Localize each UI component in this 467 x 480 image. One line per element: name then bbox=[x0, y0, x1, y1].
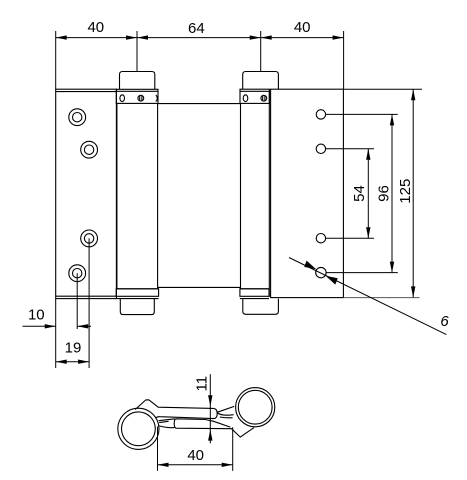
svg-text:125: 125 bbox=[397, 179, 414, 204]
upper tongue from right ring bbox=[217, 406, 234, 417]
svg-text:11: 11 bbox=[194, 376, 211, 392]
svg-text:19: 19 bbox=[65, 340, 82, 357]
10 arrows bbox=[45, 324, 56, 328]
lower bar of right leaf bbox=[174, 419, 254, 437]
right leaf hole 2 bbox=[316, 144, 325, 153]
hole 4 center extension bbox=[76, 273, 78, 329]
right leaf hole 4 bbox=[316, 267, 326, 277]
upper bar of left leaf bbox=[135, 400, 217, 419]
dimension graphics bbox=[23, 31, 447, 368]
arrows at 137 bbox=[126, 35, 137, 39]
right barrel tube bbox=[241, 103, 270, 288]
svg-text:10: 10 bbox=[28, 306, 45, 323]
6 leader arrows bbox=[304, 261, 316, 270]
54 arrows bbox=[366, 149, 370, 160]
right barrel bottom collar bbox=[240, 289, 269, 299]
left leaf hole 4 bbox=[69, 265, 86, 282]
svg-text:40: 40 bbox=[294, 19, 311, 36]
11 dimension line bbox=[209, 374, 211, 443]
left barrel tube bbox=[117, 103, 158, 288]
left leaf hole 3 bbox=[81, 230, 98, 247]
96 arrows bbox=[390, 114, 394, 125]
40 arrows bbox=[158, 463, 169, 467]
arrows at 260.7 bbox=[250, 35, 261, 39]
top dimension extension lines bbox=[55, 31, 57, 89]
10 dimension line bbox=[23, 325, 56, 327]
right side extension lines bbox=[343, 88, 422, 90]
svg-text:40: 40 bbox=[187, 447, 204, 464]
svg-text:40: 40 bbox=[87, 19, 104, 36]
40 extension lines bbox=[157, 427, 159, 471]
96 dimension line bbox=[391, 114, 393, 272]
svg-text:54: 54 bbox=[351, 185, 368, 202]
19 extension lines bbox=[55, 299, 57, 368]
left ring inner bbox=[121, 412, 155, 446]
svg-text:64: 64 bbox=[188, 20, 205, 37]
top dimension line bbox=[56, 37, 344, 39]
left ring outer bbox=[118, 408, 159, 449]
125 dimension line bbox=[412, 89, 414, 297]
11 arrows bbox=[208, 395, 212, 406]
right leaf hole 1 bbox=[316, 110, 325, 119]
54 dimension line bbox=[367, 149, 369, 238]
lower tongue from left ring bbox=[158, 419, 175, 428]
arrow 40 left bbox=[56, 35, 67, 39]
125 arrows bbox=[411, 89, 415, 100]
arrow 40 right bbox=[333, 35, 344, 39]
40 dimension line bbox=[158, 464, 233, 466]
left leaf bbox=[56, 89, 117, 298]
left barrel screw band bbox=[116, 89, 158, 103]
19 dimension line bbox=[56, 361, 89, 363]
svg-text:6: 6 bbox=[440, 313, 449, 330]
right ring inner bbox=[238, 390, 272, 424]
right leaf bbox=[269, 89, 343, 297]
left barrel top cap bbox=[120, 72, 155, 90]
right ring outer bbox=[236, 388, 275, 427]
left barrel bottom cap bbox=[120, 299, 154, 315]
bottom view dimensions bbox=[158, 374, 233, 471]
arrows bbox=[45, 35, 416, 364]
left leaf hole 2 bbox=[81, 141, 98, 158]
right barrel bottom cap bbox=[243, 299, 279, 315]
svg-text:96: 96 bbox=[375, 185, 392, 202]
19 arrows bbox=[56, 360, 67, 364]
right barrel screw band bbox=[240, 89, 269, 103]
left barrel bottom collar bbox=[116, 289, 158, 299]
6 leader line bbox=[289, 258, 446, 335]
right leaf hole 3 bbox=[316, 234, 325, 243]
middle plate between barrels bbox=[158, 104, 240, 288]
left leaf hole 1 bbox=[69, 109, 86, 126]
right barrel top cap bbox=[243, 72, 279, 90]
